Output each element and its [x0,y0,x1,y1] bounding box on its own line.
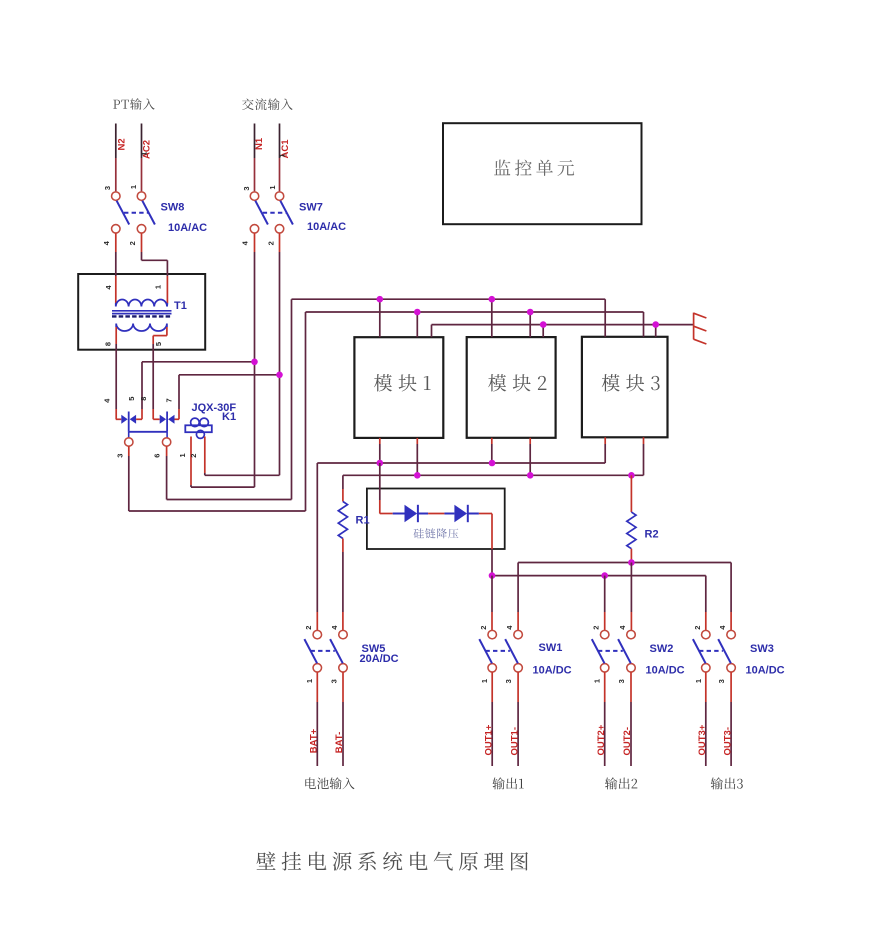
svg-text:2: 2 [128,241,137,245]
svg-text:3: 3 [717,679,726,683]
svg-text:1: 1 [139,152,148,156]
svg-text:SW8: SW8 [161,201,185,213]
svg-text:1: 1 [178,453,187,457]
svg-text:10A/DC: 10A/DC [533,665,572,677]
svg-text:2: 2 [693,626,702,630]
svg-text:2: 2 [304,626,313,630]
svg-text:5: 5 [154,342,163,346]
svg-text:1: 1 [694,679,703,683]
svg-text:K1: K1 [222,411,236,423]
svg-text:10A/DC: 10A/DC [746,665,785,677]
svg-text:20A/DC: 20A/DC [360,653,399,665]
svg-text:R1: R1 [356,515,370,527]
svg-text:BAT-: BAT- [334,732,345,753]
svg-text:OUT3+: OUT3+ [697,724,708,755]
svg-text:SW7: SW7 [299,201,323,213]
svg-text:2: 2 [189,454,198,458]
svg-text:SW3: SW3 [750,643,774,655]
svg-text:SW1: SW1 [539,642,563,654]
svg-text:1: 1 [153,285,162,289]
svg-text:N1: N1 [254,137,265,150]
svg-text:3: 3 [329,679,338,683]
svg-text:1: 1 [480,679,489,683]
svg-text:7: 7 [164,398,173,402]
svg-text:2: 2 [479,626,488,630]
svg-text:6: 6 [152,454,161,458]
svg-text:1: 1 [305,679,314,683]
svg-text:1: 1 [129,185,138,189]
svg-text:BAT+: BAT+ [308,728,319,753]
svg-text:OUT2-: OUT2- [622,727,633,756]
svg-text:R2: R2 [645,529,659,541]
svg-text:10A/DC: 10A/DC [646,665,685,677]
svg-text:2: 2 [592,626,601,630]
svg-text:3: 3 [242,186,251,190]
svg-text:SW2: SW2 [650,643,674,655]
svg-text:OUT2+: OUT2+ [596,724,607,755]
svg-text:OUT1+: OUT1+ [483,724,494,755]
svg-text:N2: N2 [117,138,128,150]
svg-text:8: 8 [139,397,148,401]
svg-text:3: 3 [103,186,112,190]
svg-text:8: 8 [104,342,113,346]
svg-text:2: 2 [267,241,276,245]
svg-text:1: 1 [268,185,277,189]
svg-text:10A/AC: 10A/AC [307,221,346,233]
svg-text:3: 3 [504,679,513,683]
svg-text:OUT1-: OUT1- [509,727,520,756]
svg-text:10A/AC: 10A/AC [168,222,207,234]
svg-text:1: 1 [278,153,287,157]
svg-text:5: 5 [127,397,136,401]
svg-text:3: 3 [116,454,125,458]
svg-text:T1: T1 [174,300,187,312]
svg-text:1: 1 [593,679,602,683]
svg-text:3: 3 [617,679,626,683]
svg-text:OUT3-: OUT3- [722,727,733,756]
